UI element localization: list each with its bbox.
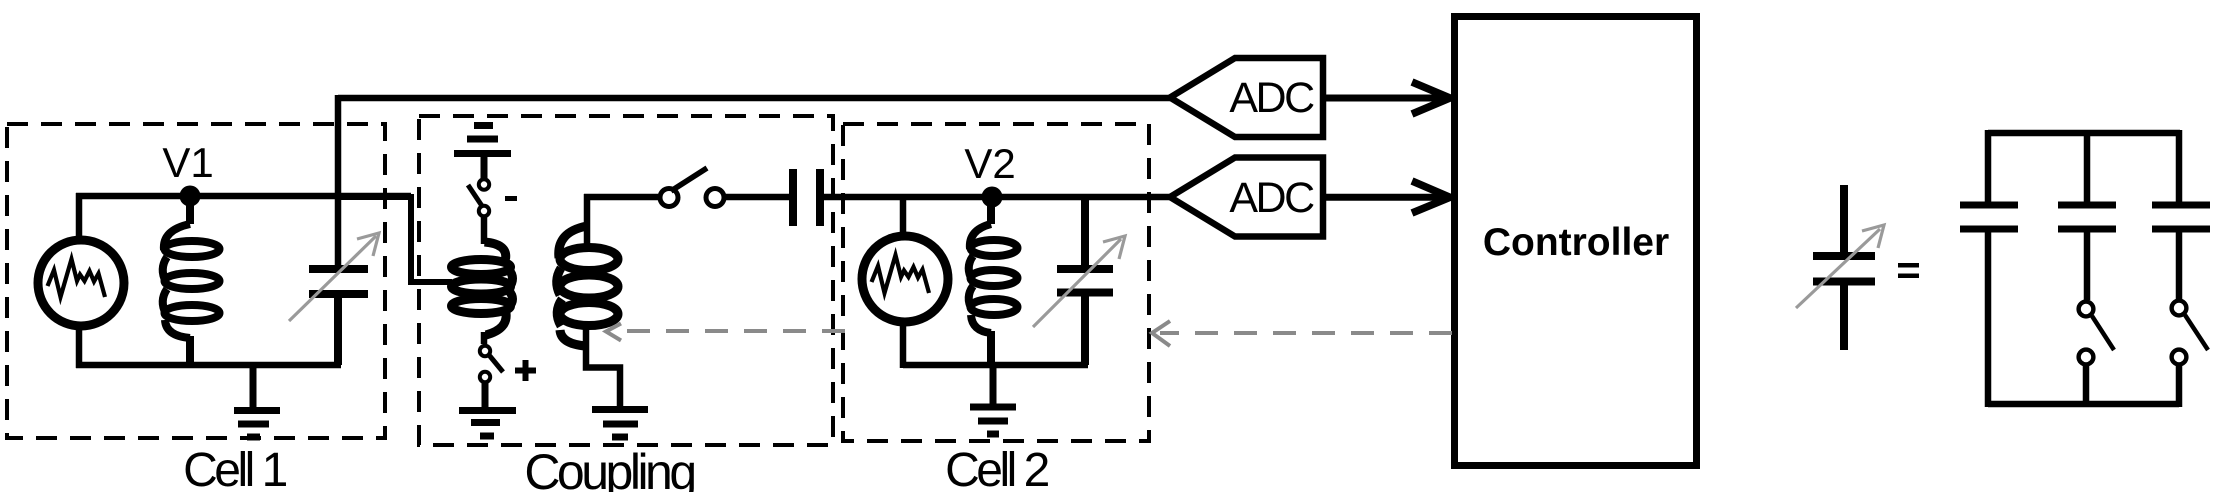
bottom wire of bank [1988,401,2179,408]
capacitor C6 [2152,205,2210,229]
ground cell2 [970,365,1016,434]
wire C2 to ADC2 (through cell 2) [824,194,1172,201]
svg-text:Cell 1: Cell 1 [183,444,287,492]
capacitor C1 variable [309,269,368,365]
wire S5 to bottom [2176,366,2183,407]
coupling dashed box [419,116,833,445]
inductor L1 [163,196,220,365]
svg-text:V1: V1 [162,139,213,186]
node V2 [982,187,1003,208]
ground below S2 [459,383,516,436]
wire S3 to C2 [724,194,789,201]
cell 2 dashed box [843,124,1149,441]
svg-text:Cell 2: Cell 2 [945,444,1049,492]
wire S4 to bottom [2083,366,2090,407]
arrow ADC1 to controller [1323,82,1450,114]
capacitor C5 [2058,205,2116,229]
wire branch 3 top [2176,130,2183,202]
wire C6 to S5 [2176,232,2183,299]
equivalent bank: top wire [1988,130,2180,137]
switch S2 [480,346,490,382]
wire L3 to ground [586,327,620,407]
capacitor C4 [1960,205,2018,229]
source G1 [38,240,124,326]
svg-text:Controller: Controller [1483,221,1669,264]
switch S5 [2172,301,2187,365]
ground below L3 [592,410,648,438]
ground top (inverted) [454,126,511,179]
inductor L4 [969,197,1018,365]
svg-text:V2: V2 [964,140,1015,187]
arrow on C1 [289,233,379,321]
svg-text:ADC: ADC [1229,174,1314,222]
node V1 [180,186,201,207]
source G2 [862,236,948,322]
wire source G2 top lead [900,194,907,240]
equals sign [1898,263,1919,268]
switch S1 [479,179,489,216]
wire source G2 bottom lead [900,321,907,368]
svg-text:Coupling: Coupling [524,444,694,492]
wire branch 1 top [1985,130,1992,202]
label minus [505,196,517,201]
arrow on legend varicap [1796,225,1884,308]
wire S1 to L2 [481,217,488,244]
wire source G1 bottom lead [76,325,83,368]
wire vertical bus to varicap C1 [335,95,342,266]
capacitor C3 variable [1057,194,1113,365]
arrow ADC2 to controller [1323,181,1450,213]
control dashed arrow to cell2 [1152,321,1452,346]
ground cell1 [234,365,280,437]
cell 1 dashed box [7,124,385,438]
wire V1 to coupling coil [338,197,452,282]
arrow on C3 [1033,236,1125,327]
wire C5 to S4 [2084,232,2091,300]
wire cell1 bottom rail [76,362,341,369]
ADC U2 [1170,158,1323,237]
controller U3 [1455,17,1697,466]
wire source G1 top lead [76,193,83,240]
control dashed arrow to L3 [606,324,845,341]
capacitor C2 [793,169,820,226]
switch S3 [660,189,724,207]
svg-text:ADC: ADC [1229,74,1314,122]
wire L2 to S2 [481,332,488,344]
inductor L3 (coupling right) [584,194,591,246]
label plus [515,360,536,381]
capacitor legend variable symbol [1813,185,1875,350]
wire L3 top to switch S3 [584,194,658,201]
wire branch 2 top [2084,133,2091,202]
wire top bus V1 to ADC1 [338,95,1172,102]
ADC U1 [1170,58,1323,137]
inductor L2 (coupling left) [452,242,513,335]
wire branch 1 bottom [1985,232,1992,407]
wire cell1 top rail [76,193,411,200]
switch S4 [2079,302,2094,365]
wire cell2 bottom rail [903,362,1088,369]
